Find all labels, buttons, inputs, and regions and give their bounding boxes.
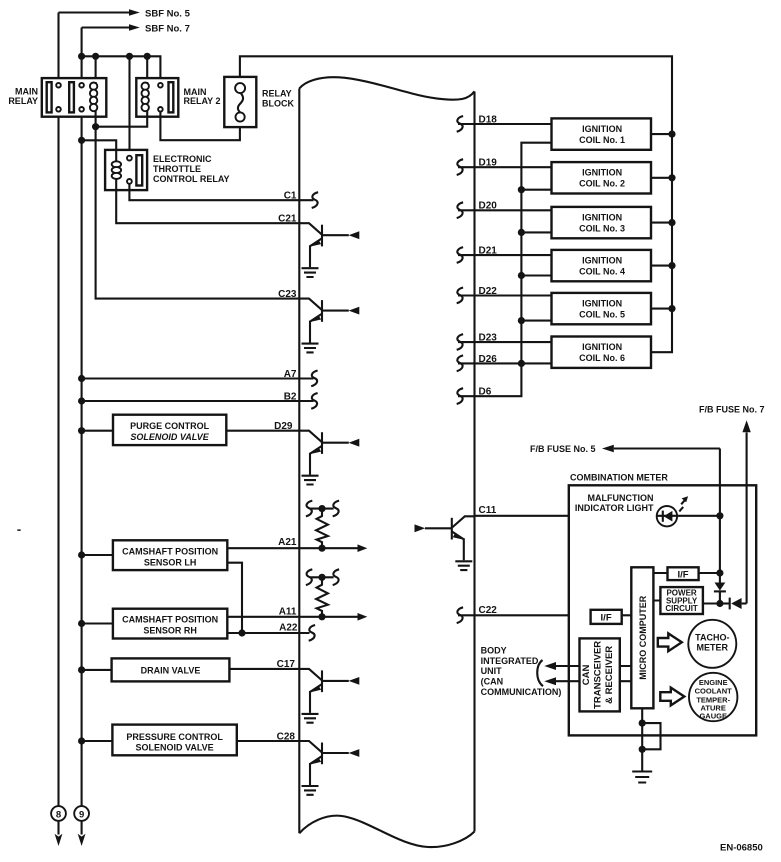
svg-text:SENSOR RH: SENSOR RH bbox=[143, 626, 197, 636]
svg-text:DRAIN VALVE: DRAIN VALVE bbox=[141, 665, 201, 675]
svg-text:D21: D21 bbox=[479, 246, 498, 257]
svg-text:CIRCUIT: CIRCUIT bbox=[665, 604, 698, 613]
svg-text:SENSOR LH: SENSOR LH bbox=[144, 557, 197, 567]
svg-text:ENGINE: ENGINE bbox=[699, 678, 728, 687]
svg-text:9: 9 bbox=[79, 810, 84, 821]
svg-text:METER: METER bbox=[697, 643, 729, 653]
svg-text:IGNITION: IGNITION bbox=[582, 342, 622, 352]
svg-text:D19: D19 bbox=[479, 158, 498, 169]
svg-text:GAUGE: GAUGE bbox=[699, 711, 727, 720]
svg-text:C11: C11 bbox=[479, 505, 497, 516]
svg-text:PRESSURE CONTROL: PRESSURE CONTROL bbox=[126, 732, 223, 742]
svg-text:SBF No. 5: SBF No. 5 bbox=[145, 8, 191, 19]
svg-text:C21: C21 bbox=[278, 214, 297, 225]
svg-text:CAMSHAFT POSITION: CAMSHAFT POSITION bbox=[122, 615, 218, 625]
svg-text:THROTTLE: THROTTLE bbox=[153, 164, 201, 174]
svg-text:D29: D29 bbox=[274, 421, 293, 432]
svg-text:CAMSHAFT POSITION: CAMSHAFT POSITION bbox=[122, 546, 218, 556]
svg-text:C23: C23 bbox=[278, 289, 297, 300]
svg-text:A11: A11 bbox=[279, 606, 297, 617]
svg-text:CONTROL RELAY: CONTROL RELAY bbox=[153, 174, 230, 184]
svg-text:8: 8 bbox=[56, 810, 61, 821]
svg-text:A22: A22 bbox=[279, 622, 298, 633]
svg-text:MICRO COMPUTER: MICRO COMPUTER bbox=[638, 595, 648, 679]
svg-text:SOLENOID VALVE: SOLENOID VALVE bbox=[136, 743, 214, 753]
svg-text:RELAY 2: RELAY 2 bbox=[184, 96, 221, 106]
svg-text:D18: D18 bbox=[479, 114, 498, 125]
svg-text:COIL No. 3: COIL No. 3 bbox=[579, 224, 625, 234]
svg-text:MAIN: MAIN bbox=[15, 87, 38, 97]
svg-text:D26: D26 bbox=[479, 354, 498, 365]
svg-text:C17: C17 bbox=[277, 659, 296, 670]
svg-text:IGNITION: IGNITION bbox=[582, 124, 622, 134]
svg-text:INTEGRATED: INTEGRATED bbox=[481, 656, 539, 666]
svg-text:EN-06850: EN-06850 bbox=[720, 843, 763, 854]
svg-text:COIL No. 2: COIL No. 2 bbox=[579, 179, 625, 189]
svg-text:COIL No. 6: COIL No. 6 bbox=[579, 353, 625, 363]
svg-text:F/B FUSE No. 7: F/B FUSE No. 7 bbox=[699, 404, 765, 414]
svg-text:COMMUNICATION): COMMUNICATION) bbox=[481, 687, 562, 697]
svg-text:CAN: CAN bbox=[581, 664, 592, 685]
svg-text:C1: C1 bbox=[284, 191, 297, 202]
svg-text:I/F: I/F bbox=[601, 613, 612, 624]
svg-text:D6: D6 bbox=[479, 387, 492, 398]
svg-text:A21: A21 bbox=[278, 537, 297, 548]
svg-text:(CAN: (CAN bbox=[481, 677, 504, 687]
svg-text:COIL No. 1: COIL No. 1 bbox=[579, 135, 625, 145]
svg-text:C28: C28 bbox=[277, 731, 296, 742]
svg-text:C22: C22 bbox=[479, 605, 498, 616]
svg-text:B2: B2 bbox=[284, 391, 297, 402]
svg-text:INDICATOR LIGHT: INDICATOR LIGHT bbox=[575, 503, 654, 513]
svg-text:SBF No. 7: SBF No. 7 bbox=[145, 23, 190, 34]
svg-text:RELAY: RELAY bbox=[262, 89, 292, 99]
svg-text:BLOCK: BLOCK bbox=[262, 99, 294, 109]
svg-text:IGNITION: IGNITION bbox=[582, 168, 622, 178]
svg-text:ELECTRONIC: ELECTRONIC bbox=[153, 154, 212, 164]
svg-text:PURGE CONTROL: PURGE CONTROL bbox=[130, 421, 210, 431]
svg-text:UNIT: UNIT bbox=[481, 666, 502, 676]
svg-text:IGNITION: IGNITION bbox=[582, 212, 622, 222]
svg-text:F/B FUSE No. 5: F/B FUSE No. 5 bbox=[530, 444, 596, 454]
svg-text:SOLENOID VALVE: SOLENOID VALVE bbox=[130, 432, 209, 442]
svg-text:RELAY: RELAY bbox=[8, 96, 38, 106]
svg-text:A7: A7 bbox=[284, 369, 297, 380]
svg-text:& RECEIVER: & RECEIVER bbox=[604, 646, 615, 704]
svg-text:I/F: I/F bbox=[677, 570, 688, 581]
svg-text:TACHO-: TACHO- bbox=[695, 632, 729, 642]
svg-text:COIL No. 5: COIL No. 5 bbox=[579, 310, 625, 320]
svg-text:D23: D23 bbox=[479, 333, 498, 344]
svg-text:BODY: BODY bbox=[481, 646, 507, 656]
svg-text:D22: D22 bbox=[479, 286, 498, 297]
svg-text:COIL No. 4: COIL No. 4 bbox=[579, 267, 625, 277]
svg-text:MALFUNCTION: MALFUNCTION bbox=[588, 493, 654, 503]
svg-text:IGNITION: IGNITION bbox=[582, 255, 622, 265]
svg-text:D20: D20 bbox=[479, 201, 498, 212]
svg-text:COMBINATION METER: COMBINATION METER bbox=[570, 473, 668, 483]
svg-text:COOLANT: COOLANT bbox=[695, 687, 732, 696]
svg-text:IGNITION: IGNITION bbox=[582, 298, 622, 308]
svg-text:TRANSCEIVER: TRANSCEIVER bbox=[592, 641, 603, 709]
